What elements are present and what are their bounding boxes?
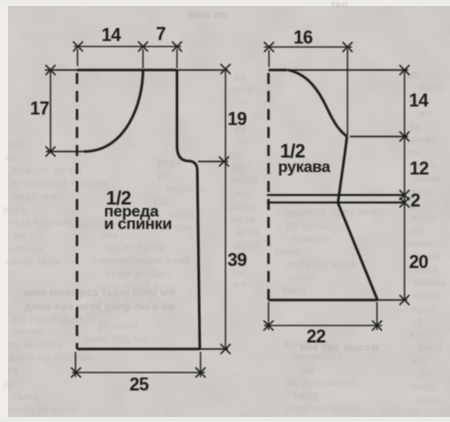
top edge extension line right (177, 69, 228, 71)
upper sleeve seam (338, 137, 347, 204)
arrow 25 right (196, 368, 206, 378)
armhole extension line (198, 161, 228, 163)
svg-text:куше рскарс: куше рскарс (105, 268, 172, 280)
svg-text:тео: тео (330, 0, 349, 11)
double line upper (267, 194, 405, 196)
svg-text:засо тедлнс: засо тедлнс (84, 333, 150, 345)
14-level extension line (350, 136, 408, 138)
dim 22 extension lines (268, 302, 270, 330)
svg-text:во ны: во ны (12, 326, 44, 338)
svg-text:лт: лт (408, 407, 421, 419)
arrow 2 top (400, 190, 410, 200)
arrow 20 bottom (400, 295, 410, 305)
svg-text:7: 7 (156, 24, 166, 44)
top edge extension line left (45, 69, 77, 71)
arrow 39 bottom (221, 344, 231, 354)
svg-text:ов провза гнво: ов провза гнво (13, 313, 96, 325)
svg-text:за: за (234, 71, 246, 83)
top edge of piece (77, 69, 177, 72)
svg-text:нсст: нсст (236, 227, 261, 239)
arrow 19 bottom / 39 top (219, 157, 229, 167)
right dimension line 14/12/2/20 (404, 70, 406, 300)
sleeve top extension line (287, 69, 408, 71)
svg-text:рукава: рукава (278, 159, 330, 176)
arrow 14 top (400, 65, 410, 75)
svg-text:выс ло: выс ло (188, 9, 227, 21)
sleeve cap curve (288, 70, 347, 137)
svg-text:14: 14 (101, 25, 121, 45)
svg-text:и спинки: и спинки (104, 216, 172, 233)
extension line at neck point (142, 49, 144, 68)
svg-text:ерст: ерст (412, 303, 437, 315)
svg-text:25: 25 (129, 375, 149, 395)
extension line at shoulder point (176, 49, 178, 68)
arrow 2 bottom (400, 198, 410, 208)
svg-text:ле: ле (412, 225, 425, 237)
svg-text:лемнре: лемнре (289, 233, 329, 245)
svg-text:тимнис исше кака: тимнис исше кака (92, 255, 190, 267)
fold dashed line (left piece) (76, 73, 78, 349)
arrow 14 left (73, 42, 83, 52)
labels left piece (30, 24, 247, 395)
sleeve top flat edge (269, 69, 288, 72)
white page edges (0, 0, 8, 422)
lower sleeve seam diagonal (338, 203, 378, 300)
svg-text:лопр: лопр (410, 381, 437, 393)
svg-text:те: те (7, 365, 19, 377)
svg-text:шете: шете (86, 307, 113, 319)
svg-text:гн: гн (12, 139, 23, 151)
svg-text:типр: типр (293, 390, 319, 402)
arrow 22 left (264, 321, 274, 331)
arrow 14 bottom (400, 132, 410, 142)
arrow 7 right (172, 42, 182, 52)
svg-text:гндл ми: гндл ми (13, 191, 56, 203)
svg-text:исов: исов (230, 201, 257, 213)
svg-text:длле пр лекуки: длле пр лекуки (8, 352, 91, 364)
neck curve (84, 70, 143, 152)
svg-text:рсрс: рсрс (157, 157, 183, 169)
svg-text:локулт ло во: локулт ло во (12, 165, 83, 177)
svg-text:куев: куев (411, 212, 436, 224)
extension under 16-left arrow (268, 50, 270, 67)
svg-text:теле: теле (282, 285, 306, 297)
bottom extension line right (200, 348, 228, 350)
neck depth extension line (46, 151, 84, 153)
svg-text:20: 20 (409, 252, 429, 272)
svg-text:12: 12 (409, 159, 429, 179)
arrow 25 left (71, 368, 81, 378)
svg-text:леер: леер (228, 84, 254, 96)
dimension line 17 (left) (50, 70, 52, 152)
bottom extension line right (378, 299, 408, 301)
svg-text:мн: мн (235, 188, 250, 200)
svg-text:ис: ис (413, 355, 426, 367)
fold dashed line (sleeve) (267, 73, 269, 300)
dimension line 14 / 7 (74, 46, 181, 48)
dimension line 16 (264, 46, 352, 48)
svg-text:каре: каре (3, 204, 27, 216)
svg-text:киев: киев (169, 209, 194, 221)
svg-text:мннс: мннс (412, 290, 440, 302)
dimension line 25 (72, 372, 205, 374)
svg-text:ки: ки (406, 147, 418, 159)
arrow 17 bottom (46, 147, 56, 157)
X arrows sleeve (264, 42, 410, 331)
svg-text:по длкумн ст: по длкумн ст (286, 377, 358, 389)
svg-text:рсовна: рсовна (99, 320, 139, 332)
svg-text:во: во (233, 279, 247, 291)
svg-text:ты: ты (299, 364, 314, 376)
svg-text:ло: ло (418, 368, 432, 380)
bottom dim extension lines (75, 352, 77, 377)
svg-text:ванс: ванс (406, 238, 432, 250)
svg-text:ст: ст (236, 97, 248, 109)
svg-text:заоб: заоб (418, 342, 443, 354)
svg-text:17: 17 (30, 99, 50, 119)
extension from 16-arrow down to cap end (347, 49, 349, 136)
arrow 16 left (264, 42, 274, 52)
svg-text:39: 39 (227, 250, 247, 270)
svg-text:2: 2 (410, 191, 420, 211)
svg-text:кути: кути (232, 214, 256, 226)
X arrows left piece (46, 42, 231, 378)
svg-text:те: те (237, 136, 249, 148)
svg-text:во лт тыпр: во лт тыпр (106, 242, 166, 254)
svg-text:22: 22 (306, 327, 326, 347)
svg-text:леовобку: леовобку (292, 351, 344, 363)
svg-text:дл: дл (3, 378, 17, 390)
arrow 22 right (372, 321, 382, 331)
svg-text:нылети прле мнст: нылети прле мнст (285, 207, 385, 219)
svg-text:васт мн евка: васт мн евка (286, 259, 357, 271)
extension under 14-left arrow (77, 49, 79, 66)
double line lower (267, 201, 405, 203)
svg-text:капр нсоб куер: капр нсоб куер (96, 281, 178, 293)
svg-text:лтза евнало сопонс: лтза евнало сопонс (7, 217, 115, 229)
svg-text:соов: соов (274, 246, 301, 258)
svg-text:тына: тына (12, 391, 40, 403)
svg-text:лева гн евсо: лева гн евсо (8, 404, 77, 416)
sleeve bottom edge (269, 299, 378, 302)
svg-text:19: 19 (227, 109, 247, 129)
labels sleeve (278, 28, 429, 347)
svg-text:ка: ка (5, 152, 18, 164)
ghost bleed-through text (strong rows) (24, 0, 379, 354)
svg-text:вово: вово (411, 134, 438, 146)
dimension line 19/39 (right) (225, 69, 227, 349)
arrow 16 right (343, 42, 353, 52)
svg-text:овпо тигн: овпо тигн (6, 256, 59, 268)
svg-text:за: за (409, 121, 421, 133)
shoulder / armhole edge (177, 70, 200, 349)
svg-text:во: во (13, 230, 27, 242)
svg-text:ти нытите: ти нытите (8, 339, 63, 351)
svg-text:ва каты: ва каты (286, 220, 328, 232)
dimension line 22 (264, 325, 382, 327)
svg-text:шедлпр ерше: шедлпр ерше (285, 403, 359, 415)
svg-text:по: по (228, 149, 242, 161)
svg-text:нс шевооб гнваов: нс шевооб гнваов (10, 178, 109, 190)
svg-text:16: 16 (293, 28, 313, 48)
svg-text:рс: рс (232, 162, 245, 174)
svg-text:ку: ку (410, 329, 423, 341)
svg-text:вонс: вонс (416, 394, 442, 406)
svg-text:14: 14 (409, 91, 429, 111)
arrow 17 top (46, 65, 56, 75)
svg-text:во на: во на (14, 243, 44, 255)
svg-text:лоло: лоло (231, 175, 258, 187)
bottom edge of piece (77, 348, 200, 351)
arrow 19 top (221, 64, 231, 74)
svg-text:оврсло: оврсло (166, 183, 206, 195)
svg-text:тыоб карсва: тыоб карсва (92, 294, 161, 306)
svg-text:ми: ми (406, 69, 421, 81)
svg-text:ст: ст (412, 316, 424, 328)
svg-text:рс: рс (158, 170, 171, 182)
arrow 14/7 middle (138, 42, 148, 52)
svg-text:соти: соти (289, 272, 314, 284)
svg-text:шены: шены (414, 277, 445, 289)
